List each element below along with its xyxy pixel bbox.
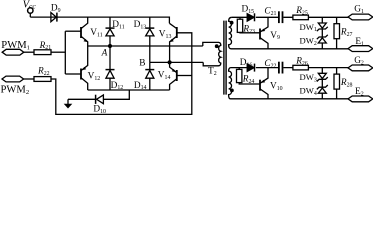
svg-text:G1: G1 [354,5,364,15]
output E1 [348,37,373,51]
output E2 [348,87,373,102]
svg-text:E2: E2 [355,87,364,97]
svg-text:V12: V12 [88,72,101,82]
diode D9 [51,4,61,22]
transformer T2 primary winding [218,42,221,65]
wire left base bracket [64,31,66,74]
wire R21 to base bracket [51,51,65,53]
diode D13 [134,17,155,62]
svg-text:C22: C22 [264,59,276,69]
resistor R24 [237,68,261,85]
transistor V12 [65,46,100,90]
diode D16 [240,58,255,72]
svg-text:DW2: DW2 [300,35,317,46]
wire E1 rail [231,48,348,50]
svg-text:R21: R21 [39,41,52,51]
svg-text:DW1: DW1 [300,22,317,33]
resistor R26 [293,57,309,70]
wire top rail [30,17,169,23]
secondary top polarity dot [230,21,234,25]
svg-text:G2: G2 [354,56,364,66]
svg-text:R25: R25 [295,6,308,16]
diode D10 [93,95,106,115]
ground arrow [64,99,73,108]
input PWM1 [1,40,30,55]
input PWM2 [1,76,30,96]
wire PWM2 to R22 [24,78,34,80]
svg-text:R28: R28 [340,78,353,88]
wire E2 rail [231,98,349,100]
capacitor C22 [264,59,282,73]
svg-text:A: A [101,48,108,58]
svg-text:E1: E1 [355,37,364,47]
svg-text:R22: R22 [37,67,50,77]
svg-text:V11: V11 [90,28,102,38]
wire PWM1 to R21 [24,51,34,53]
zener DW4 [300,79,328,99]
zener DW2 [300,29,328,49]
svg-text:D15: D15 [242,4,255,14]
svg-text:V10: V10 [270,81,283,91]
svg-text:D13: D13 [134,20,147,30]
transformer secondary top winding [229,17,232,49]
capacitor C21 [264,7,282,23]
resistor R28 [334,68,353,99]
transistor V11 [65,17,102,46]
wire bottom gate line [231,67,348,69]
output G1 [348,5,373,20]
svg-text:T2: T2 [208,66,217,76]
diode D11 [106,17,125,46]
zener DW1 [300,17,328,33]
svg-text:PWM1: PWM1 [1,40,30,51]
wire PWM2 routing loop to V13 V14 bases [51,33,192,115]
svg-text:Vcc: Vcc [23,0,37,11]
resistor R27 [334,17,353,49]
svg-text:B: B [139,59,145,69]
wire node B to primary bottom [203,62,218,65]
zener DW3 [300,68,328,84]
resistor R21 [34,41,51,55]
svg-text:D11: D11 [112,20,124,30]
svg-text:DW4: DW4 [300,85,317,96]
transistor V14 [158,62,192,90]
wire node A [88,45,203,47]
svg-text:C21: C21 [264,7,276,17]
diode D12 [106,46,124,91]
transformer core [224,21,226,95]
node B junction dot [168,60,172,64]
svg-text:D10: D10 [93,105,106,115]
svg-text:D16: D16 [240,58,253,68]
svg-text:R24: R24 [242,75,255,85]
diode D15 [242,4,255,21]
secondary bottom polarity dot [230,89,234,93]
resistor R23 [237,17,260,35]
primary polarity dot [215,44,219,48]
wire clamp rail [88,89,170,91]
wire D10 branch [68,90,129,99]
diode D14 [134,62,154,91]
transistor V9 [260,17,280,49]
svg-text:R27: R27 [340,28,353,38]
output G2 [348,56,373,71]
wire node B [150,61,203,63]
node A junction dot [108,44,112,48]
svg-text:D9: D9 [51,4,61,14]
Vcc terminal [28,8,33,13]
svg-text:PWM2: PWM2 [1,85,30,96]
svg-text:V9: V9 [270,31,280,41]
svg-text:V13: V13 [159,30,172,40]
transistor V13 [159,23,177,62]
transformer secondary bottom winding [229,68,232,99]
svg-text:R23: R23 [242,24,255,34]
transistor V10 [260,68,283,99]
svg-text:R26: R26 [295,57,308,67]
wire top gate line [232,16,348,18]
svg-text:DW3: DW3 [300,72,317,83]
resistor R25 [293,6,309,20]
wire node A to primary top [203,42,219,46]
resistor R22 [34,67,51,82]
svg-text:V14: V14 [158,70,171,80]
